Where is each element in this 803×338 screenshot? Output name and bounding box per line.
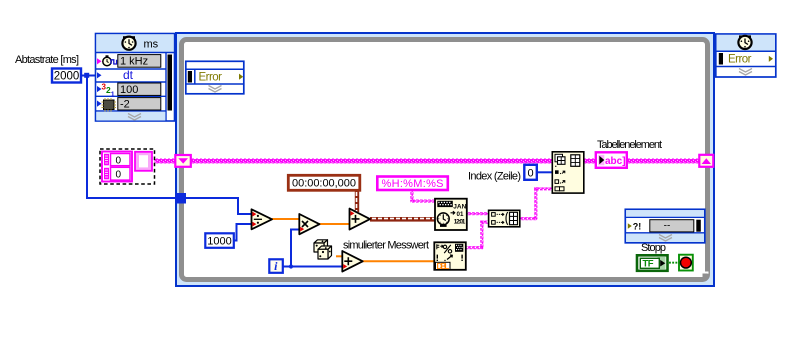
svg-text:--: -- <box>664 221 671 232</box>
svg-text:%H:%M:%S: %H:%M:%S <box>382 178 444 190</box>
svg-text:?!: ?! <box>633 222 642 232</box>
svg-text:Tabellenelement: Tabellenelement <box>597 139 662 151</box>
svg-text:12:01: 12:01 <box>454 218 466 225</box>
svg-text:01: 01 <box>457 211 464 218</box>
svg-text:-2: -2 <box>120 98 130 110</box>
svg-text:TF: TF <box>643 259 654 270</box>
svg-text:0: 0 <box>116 169 122 180</box>
svg-text:abc]: abc] <box>605 156 626 167</box>
svg-text:dt: dt <box>123 68 134 82</box>
svg-text:Abtastrate [ms]: Abtastrate [ms] <box>15 54 79 66</box>
svg-text:Index (Zeile): Index (Zeile) <box>468 170 521 182</box>
svg-text:Error: Error <box>728 54 752 66</box>
svg-text:0: 0 <box>116 155 122 166</box>
svg-text:JAN: JAN <box>453 204 466 211</box>
svg-text:ms: ms <box>144 39 159 51</box>
svg-text:Stopp: Stopp <box>641 242 666 254</box>
svg-text:Error: Error <box>199 72 223 84</box>
svg-text:0: 0 <box>527 168 533 180</box>
svg-text:1000: 1000 <box>207 236 231 248</box>
svg-text:2000: 2000 <box>54 71 80 83</box>
svg-text:100: 100 <box>120 84 138 96</box>
svg-text:simulierter Messwert: simulierter Messwert <box>343 240 429 252</box>
svg-text:00:00:00,000: 00:00:00,000 <box>292 178 356 190</box>
svg-text:DBL: DBL <box>437 262 450 271</box>
svg-text:1 kHz: 1 kHz <box>120 55 148 67</box>
svg-text:1: 1 <box>111 92 115 99</box>
